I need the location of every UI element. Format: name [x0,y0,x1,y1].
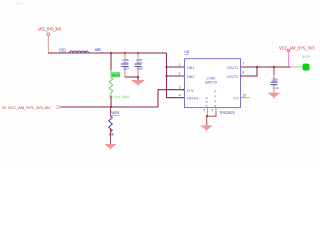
wire: VOUT1 out [241,66,258,68]
wire: into VIN1 pin [167,66,185,68]
IC U8 load switch TPS22975 [184,50,240,115]
ground (R4575) [105,144,116,148]
wire: down to ground [137,77,139,81]
svg-text:10K: 10K [109,132,115,136]
wire: top wire turns down at x=166.5 [167,53,185,98]
wire: main top horizontal [48,52,167,54]
power flag VCC_AM_SYS_3V3 [279,46,315,68]
svg-text:VBIAS: VBIAS [187,97,200,101]
svg-text:4: 4 [179,93,181,97]
wire: R845 bottom to EN [110,96,112,107]
svg-text:120R: 120R [95,48,102,52]
svg-text:3: 3 [179,86,181,90]
svg-text:1uF: 1uF [123,67,129,71]
svg-text:VCC_AM_SYS_3V3_EN: VCC_AM_SYS_3V3_EN [8,105,50,110]
svg-text:U8: U8 [184,50,189,54]
svg-text:VIN1: VIN1 [187,66,195,70]
junction GND stubs [206,115,208,117]
junction at cap ground [137,76,139,78]
svg-text:C819: C819 [272,78,279,82]
junction VOUT tie [256,66,258,68]
ground (U8) [206,108,208,117]
svg-text:CT: CT [234,97,239,101]
wire: into VIN2 pin [167,75,185,77]
stray gray mark top-left [16,2,23,5]
ground stem tip [206,130,207,131]
junction magenta riser [288,66,290,68]
ground (C819) [269,93,280,97]
svg-text:SWITCH: SWITCH [205,80,218,84]
testpoint (green, DNI) [291,55,311,70]
svg-text:FB1: FB1 [59,48,66,52]
junction at C796 branch [124,52,126,54]
ground (caps) [132,80,144,84]
power flag VCC_SYS_3V3 [38,27,62,53]
svg-text:TPS22975: TPS22975 [220,111,235,115]
svg-text:5019: 5019 [303,55,311,59]
pin CT stub [241,97,250,99]
svg-text:20: 20 [2,105,7,110]
off-page connector VCC_AM_SYS_3V3_EN [2,105,61,110]
wire: VOUT2 out and up [241,67,258,76]
svg-text:VOUT1: VOUT1 [227,66,239,70]
svg-text:VOUT2: VOUT2 [227,75,239,79]
ferrite bead FB1 [59,48,101,53]
svg-text:C797: C797 [136,58,143,62]
svg-text:7: 7 [242,62,244,66]
junction dot at ON pin [183,89,185,91]
wire: EN up and into ON pin [158,90,185,107]
svg-text:R4575: R4575 [110,111,119,115]
svg-text:GND: GND [204,97,208,107]
resistor R845 (DNI, green) [109,70,130,99]
junction VIN1 [166,66,168,68]
resistor R4575 [109,107,120,144]
capacitor C819 [271,67,279,93]
junction EN / R845 / R4575 [110,106,112,108]
svg-text:Do Not Stuff: Do Not Stuff [109,95,130,99]
wire: drop to R845 [110,53,112,70]
svg-text:2: 2 [179,72,181,76]
junction VIN2 [166,75,168,77]
junction at C797 branch [137,52,139,54]
svg-text:VIN2: VIN2 [187,75,195,79]
junction at R845 branch [110,52,112,54]
svg-text:VCC_AM_SYS_3V3: VCC_AM_SYS_3V3 [279,46,315,51]
svg-text:10: 10 [242,94,246,98]
junction C819 branch [273,66,275,68]
capacitor C797 [135,53,144,77]
wire: EN horizontal [61,106,158,108]
svg-text:8: 8 [242,70,244,74]
capacitor C796 [121,53,129,77]
pin GND stub right [215,108,217,112]
svg-text:1: 1 [179,63,181,67]
svg-text:ON: ON [187,89,194,93]
wire: cap bottoms tie [125,76,138,78]
wire: output horizontal [257,66,291,68]
svg-text:VCC_SYS_3V3: VCC_SYS_3V3 [38,27,62,32]
svg-text:C796: C796 [122,58,129,62]
svg-text:R845: R845 [112,73,120,77]
